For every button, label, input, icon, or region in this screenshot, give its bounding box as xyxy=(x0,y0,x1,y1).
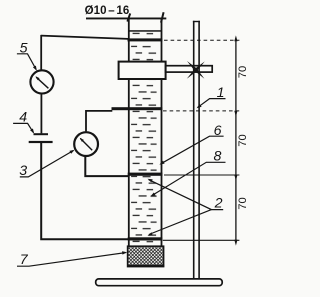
wire gauge3 top to tube xyxy=(86,111,112,131)
wire gauge5 to valve 4 xyxy=(40,94,42,133)
tube left wall xyxy=(128,18,130,246)
mark level 4 xyxy=(128,237,163,240)
liquid surface line xyxy=(129,30,161,32)
svg-text:2: 2 xyxy=(214,195,223,211)
tube top edge / dimension line xyxy=(86,18,166,20)
chain arrow mid2 xyxy=(234,175,237,181)
extension line level 4 xyxy=(163,239,240,241)
wire from gauge 5 to tube xyxy=(41,36,128,39)
mark level 1 xyxy=(128,38,163,41)
porous filter 7 xyxy=(128,246,164,266)
mark level 3 xyxy=(128,173,163,176)
clamp arm xyxy=(166,66,213,72)
valve 4 lower bar xyxy=(29,141,53,143)
valve 4 upper bar xyxy=(34,133,49,135)
chain arrow bottom xyxy=(234,240,237,246)
clamp screw cross xyxy=(187,61,197,71)
svg-text:70: 70 xyxy=(237,197,249,209)
mark level 2 xyxy=(112,107,163,110)
chain arrow top xyxy=(234,35,237,41)
clamp body on tube xyxy=(119,62,166,79)
gauge 3 (manometer) xyxy=(74,132,98,156)
dimension slash left xyxy=(127,13,130,21)
gauge 5 (manometer) xyxy=(30,70,53,93)
stand base xyxy=(96,279,223,286)
wire valve 4 down to bottom corner xyxy=(41,143,128,240)
extension line level 2 xyxy=(163,110,239,112)
svg-text:70: 70 xyxy=(237,66,249,78)
tube right wall xyxy=(161,18,163,246)
svg-text:70: 70 xyxy=(237,134,249,146)
wire rail gauge5 top xyxy=(40,35,42,70)
wire gauge3 bottom to tube xyxy=(85,157,128,176)
dimension chain line xyxy=(235,39,237,242)
extension line level 1 xyxy=(164,39,239,41)
chain arrow mid1 xyxy=(234,111,237,117)
stand rod xyxy=(193,21,195,279)
dimension slash right xyxy=(161,12,164,22)
liquid fill inside tube xyxy=(130,32,161,246)
extension line level 3 xyxy=(164,174,239,176)
